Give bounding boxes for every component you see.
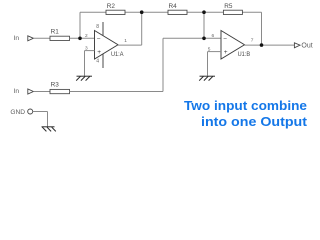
wire In2 to R3	[33, 91, 50, 93]
svg-text:into one Output: into one Output	[201, 114, 308, 129]
wire pin5 to ground	[207, 52, 209, 76]
svg-text:U1:B: U1:B	[238, 51, 251, 58]
op-amp U1:B	[221, 31, 250, 60]
resistor R1	[50, 28, 70, 40]
terminal GND	[10, 109, 32, 116]
wire top rail R5 to corner	[242, 11, 262, 13]
wire R3 run right	[70, 91, 164, 93]
svg-text:R5: R5	[224, 3, 233, 10]
svg-text:R1: R1	[51, 28, 60, 35]
op-amp U1:A	[95, 31, 125, 60]
svg-text:2: 2	[85, 33, 88, 39]
wire U1:B pin5	[208, 51, 222, 53]
wire U1:A output riser	[141, 12, 143, 45]
power pin 4 stub	[96, 54, 103, 68]
wire summing node drop	[203, 12, 205, 38]
node junction dot R2-R4	[140, 10, 144, 14]
wire top rail left segment	[80, 11, 106, 13]
input connector In1	[14, 35, 34, 42]
node junction dot output	[260, 43, 264, 47]
input connector In2	[14, 88, 34, 95]
svg-text:In: In	[14, 88, 20, 95]
svg-text:R2: R2	[107, 3, 116, 10]
ground (U1:A +)	[76, 76, 92, 80]
wire GND drop	[47, 112, 49, 127]
svg-text:Out: Out	[301, 43, 312, 50]
svg-text:+: +	[97, 49, 101, 56]
wire pin3 to ground	[84, 51, 86, 76]
wire top rail R2 to dot	[125, 11, 168, 13]
svg-text:U1:A: U1:A	[111, 51, 124, 58]
power pin 8 stub	[96, 22, 103, 36]
ground (U1:B +)	[199, 76, 215, 80]
wire U1:B output to Out	[245, 44, 295, 46]
svg-text:R3: R3	[51, 82, 60, 89]
node junction dot summing	[202, 37, 206, 41]
wire U1:A output	[118, 44, 142, 46]
node junction dot inverting input A	[78, 37, 82, 41]
svg-text:−: −	[223, 36, 227, 43]
output connector Out	[294, 43, 312, 50]
wire R5 feedback drop	[261, 12, 263, 45]
svg-text:7: 7	[251, 37, 254, 43]
wire top rail R4 to R5	[187, 11, 223, 13]
svg-text:1: 1	[124, 38, 127, 44]
svg-text:−: −	[97, 36, 101, 43]
svg-text:GND: GND	[10, 109, 25, 116]
svg-text:6: 6	[212, 33, 215, 39]
resistor R4	[168, 3, 187, 15]
wire summing to U1:B pin6	[163, 37, 221, 39]
wire R1 to U1:A pin2	[70, 37, 95, 39]
ground (GND terminal)	[42, 127, 56, 132]
wire In1 to R1	[33, 37, 50, 39]
wire feedback drop left	[79, 12, 81, 38]
resistor R3	[50, 82, 70, 94]
resistor R2	[106, 3, 125, 15]
wire GND to corner	[33, 111, 48, 113]
wire riser to summing node	[162, 38, 164, 91]
svg-text:4: 4	[96, 58, 99, 64]
svg-text:In: In	[14, 35, 20, 42]
resistor R5	[223, 3, 242, 15]
node junction dot R4-R5	[202, 10, 206, 14]
svg-text:Two input combine: Two input combine	[184, 98, 307, 113]
svg-text:R4: R4	[169, 3, 178, 10]
wire U1:A pin3	[85, 50, 95, 52]
svg-text:+: +	[224, 49, 228, 56]
svg-text:8: 8	[96, 24, 99, 30]
